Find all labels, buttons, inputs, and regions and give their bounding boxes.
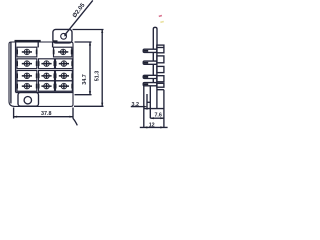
svg-text:12: 12 xyxy=(149,123,155,129)
terminal cell row1 col3 xyxy=(54,47,72,57)
side terminal tab 3 xyxy=(143,75,157,78)
body left inner wall line xyxy=(10,42,12,103)
terminal cell row4 col1 xyxy=(17,81,37,91)
mounting tab front view xyxy=(53,29,72,43)
screw row3 col1 xyxy=(16,73,37,79)
screw row2 col1 xyxy=(16,61,37,67)
dim 34.7 extension top xyxy=(75,41,92,43)
screw row4 col3 xyxy=(55,83,73,89)
side base mid line xyxy=(149,86,151,119)
red mark xyxy=(159,15,162,18)
svg-text:34.7: 34.7 xyxy=(82,74,88,85)
terminal cell row3 col3 xyxy=(56,71,73,81)
side body box 5 xyxy=(157,83,164,87)
svg-text:7.6: 7.6 xyxy=(154,112,162,118)
pocket hole xyxy=(24,97,31,104)
top small band right xyxy=(53,40,58,42)
interior left wall xyxy=(15,42,17,92)
terminal cell row1 col1 xyxy=(17,47,37,57)
screw row4 col1 xyxy=(16,83,37,89)
terminal cell row2 col3 xyxy=(56,59,73,69)
side body box 3 xyxy=(157,66,164,72)
dim 37.8 extension left xyxy=(13,108,15,119)
body outline front view xyxy=(9,42,73,106)
screw row1 col1 xyxy=(16,49,37,55)
dim 51.3 extension bottom xyxy=(74,105,104,107)
front wall left line lower xyxy=(152,53,154,86)
side body top box xyxy=(157,45,164,53)
leader arrowhead xyxy=(64,34,68,37)
dim 12 extension left xyxy=(143,109,145,128)
side base right edge / extension xyxy=(163,90,165,128)
notch wall left xyxy=(37,42,39,47)
texts xyxy=(41,2,162,128)
side base top line xyxy=(157,89,164,91)
side terminal tab 1 xyxy=(143,49,157,52)
terminal cell row4 col2 xyxy=(39,81,55,91)
screw row1 col3 xyxy=(53,49,73,55)
terminal cell row3 col2 xyxy=(39,71,55,81)
notch wall right xyxy=(52,42,54,47)
dim 34.7 line xyxy=(89,42,91,95)
screw row2 col3 xyxy=(55,61,73,67)
dim 51.3 extension top xyxy=(73,29,104,31)
terminal cells xyxy=(17,47,72,91)
side view mounting tab / front wall xyxy=(153,27,157,86)
screw row3 col3 xyxy=(55,73,73,79)
screw row2 col2 xyxy=(38,61,55,67)
svg-text:3.2: 3.2 xyxy=(132,102,140,108)
side base crossbar xyxy=(147,101,150,103)
side terminal tab 4 xyxy=(143,83,157,86)
dim 51.3 line xyxy=(101,30,103,107)
front wall right line xyxy=(156,45,158,109)
dim 7.6 line xyxy=(150,117,164,119)
side terminal tab 2 xyxy=(143,61,157,64)
screw row4 col2 xyxy=(38,83,55,89)
dim 34.7 extension bottom xyxy=(75,94,92,96)
terminal cell row2 col2 xyxy=(39,59,55,69)
interior shelf line xyxy=(16,91,73,93)
yellow mark xyxy=(160,21,163,24)
screw row3 col2 xyxy=(38,73,55,79)
mounting hole xyxy=(61,33,67,39)
side base bottom edge xyxy=(144,108,164,110)
leader line hole callout xyxy=(65,0,93,35)
side body box 4 xyxy=(157,76,164,82)
dim 37.8 line xyxy=(14,116,73,118)
side body box 2 xyxy=(157,56,164,63)
leader hook bottom right xyxy=(73,118,77,125)
svg-text:37.8: 37.8 xyxy=(41,111,52,117)
svg-text:51.3: 51.3 xyxy=(94,71,100,82)
terminal cell row4 col3 xyxy=(56,81,73,91)
dim 12 line xyxy=(140,126,168,128)
screws xyxy=(16,49,73,89)
terminal cell row2 col1 xyxy=(17,59,37,69)
dim 37.8 extension right xyxy=(72,108,74,119)
side base flange inner line xyxy=(146,94,148,110)
top raised band xyxy=(15,40,41,42)
bottom-left pocket xyxy=(18,92,39,106)
side base flange left line xyxy=(143,86,145,109)
dim 3.2 line xyxy=(131,106,147,108)
terminal cell row3 col1 xyxy=(17,71,37,81)
